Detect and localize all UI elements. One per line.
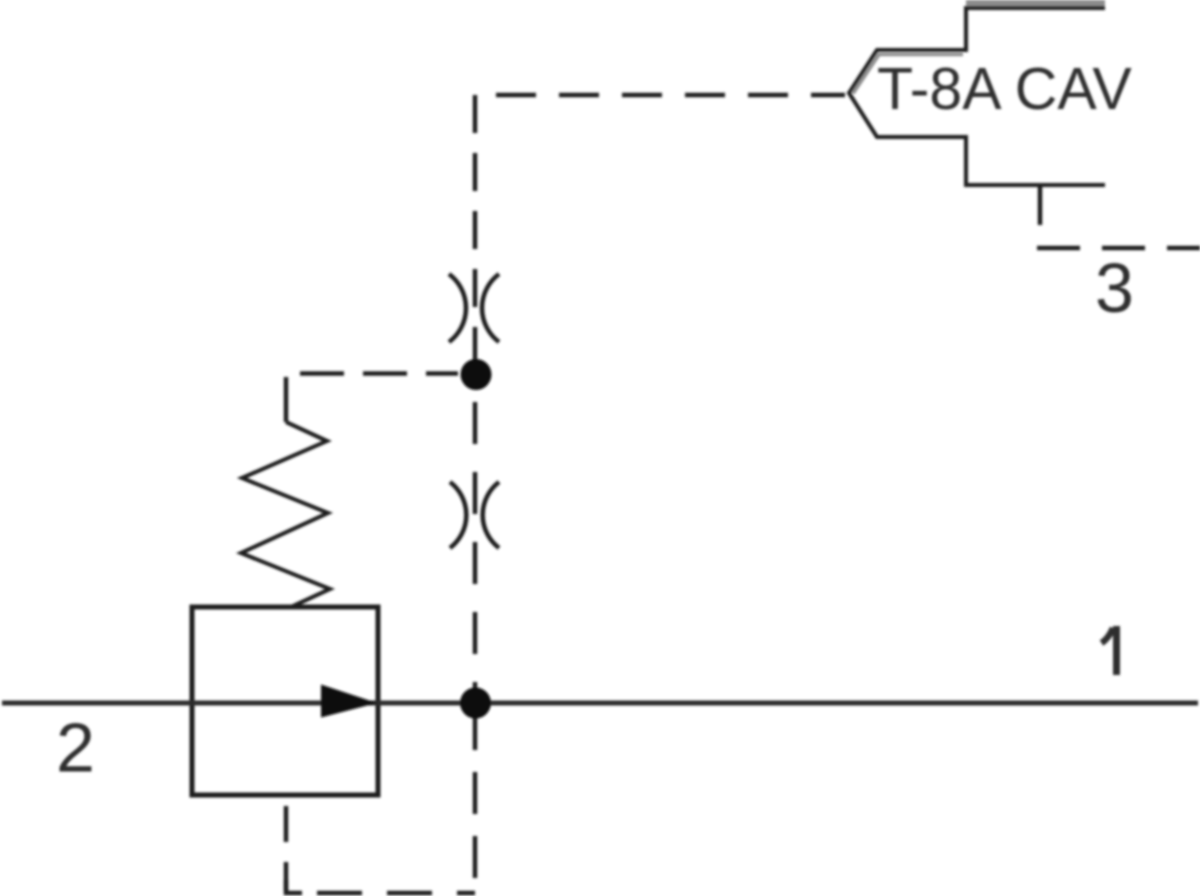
pilot wire: bottom horizontal dashed [317, 891, 475, 896]
main flow line (port 2 to port 1) [2, 701, 1198, 706]
wire: spring top connector [284, 377, 289, 422]
pilot wire: vertical dashed line [473, 95, 478, 365]
port label 1 [1102, 626, 1117, 675]
pilot wire: vertical dashed (middle) [473, 402, 478, 689]
pilot wire: bottom-left corner elbow [286, 880, 302, 893]
valve body box [192, 607, 378, 795]
junction node upper [461, 359, 492, 390]
pilot wire: vertical dashed (lower) [473, 686, 478, 893]
spring [241, 422, 330, 607]
orifice R2 [450, 482, 499, 548]
port 3 dashed line [1037, 246, 1200, 251]
pilot wire: top horizontal dashed to cavity [475, 93, 845, 98]
cavity top gray bar (clipped boundary) [966, 0, 1105, 6]
pennant flag echo edge (upper) [853, 55, 963, 94]
flow arrow [321, 685, 377, 718]
svg-text:3: 3 [1095, 249, 1134, 327]
svg-text:2: 2 [56, 709, 95, 787]
cavity port tick [1038, 185, 1043, 225]
orifice R1 [449, 274, 499, 342]
junction node lower [460, 688, 491, 719]
pilot wire: box bottom vertical dashed [284, 795, 289, 891]
pilot wire: left branch horizontal dashed [286, 371, 458, 376]
svg-text:T-8A CAV: T-8A CAV [877, 56, 1132, 122]
cavity T-8A stepped profile outline [849, 8, 1105, 185]
